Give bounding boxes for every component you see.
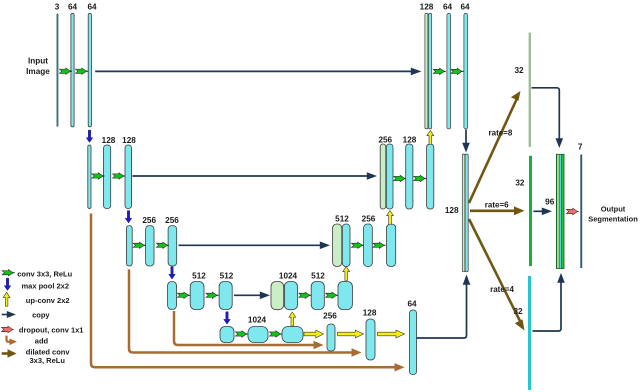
up-conv result bar <box>342 224 350 267</box>
max pool arrow 3 <box>169 267 176 279</box>
conv bar 128 <box>104 145 111 209</box>
input image bar (3) <box>57 13 59 126</box>
conv arrow <box>351 242 364 248</box>
add wire from level3 <box>129 269 352 352</box>
copy wire row2 <box>133 175 368 177</box>
legend add arrow <box>7 336 12 342</box>
legend up-conv arrow <box>3 292 10 306</box>
conv bar 256 <box>146 226 154 266</box>
svg-text:32: 32 <box>514 66 524 75</box>
up-conv result bar <box>386 144 393 209</box>
conv arrow <box>75 68 88 74</box>
copy wire row3 <box>179 244 321 246</box>
svg-text:512: 512 <box>335 215 349 224</box>
svg-text:256: 256 <box>142 216 156 225</box>
add wire from level2 <box>91 214 395 368</box>
dilated out bar 32 (rate 6) <box>529 156 532 266</box>
up-conv right arrow <box>304 330 324 338</box>
conv bar 64 <box>464 13 468 128</box>
conv arrow <box>414 175 427 181</box>
pooled bar <box>126 226 132 266</box>
dilated out bar 32 (rate 8) <box>529 33 531 147</box>
legend copy arrow <box>2 314 8 316</box>
conv arrow <box>133 242 146 248</box>
conv box <box>338 282 352 310</box>
conv bar 256 <box>168 226 177 266</box>
conv arrow <box>394 175 407 181</box>
copy elbow from bottom 32 to 96 <box>533 282 562 331</box>
conv arrow <box>92 173 105 179</box>
svg-text:Segmentation: Segmentation <box>588 215 638 224</box>
dilated out bar 32 (rate 4) <box>528 276 531 390</box>
copy wire down to dilated bar <box>465 130 467 145</box>
max pool arrow 4 <box>224 312 231 324</box>
copy wire 64 to dilated input <box>417 284 467 338</box>
conv arrow <box>373 242 386 248</box>
svg-text:128: 128 <box>122 136 136 145</box>
copy wire row1 <box>95 70 411 72</box>
svg-text:1024: 1024 <box>279 271 298 280</box>
conv bar 128 <box>125 145 132 209</box>
up-conv arrow to row3 <box>343 267 350 281</box>
svg-text:copy: copy <box>32 310 50 319</box>
conv arrow <box>59 68 72 74</box>
dilated conv rate=6 arrow <box>470 210 515 213</box>
conv box 1024 <box>248 327 268 343</box>
svg-text:256: 256 <box>362 215 376 224</box>
copy wire row4 <box>234 294 261 296</box>
conv bar 512 <box>190 282 204 310</box>
svg-text:64: 64 <box>68 3 78 12</box>
svg-text:up-conv 2x2: up-conv 2x2 <box>26 296 70 305</box>
svg-text:max pool 2x2: max pool 2x2 <box>22 282 70 291</box>
max pool arrow 2 <box>125 211 132 223</box>
svg-text:128: 128 <box>403 136 417 145</box>
svg-text:Input: Input <box>28 57 48 66</box>
svg-text:rate=8: rate=8 <box>489 129 513 138</box>
svg-text:Image: Image <box>26 67 50 76</box>
concat bar 96 (striped) <box>556 154 564 268</box>
svg-text:conv 3x3, ReLu: conv 3x3, ReLu <box>17 270 72 279</box>
svg-text:Output: Output <box>601 205 626 214</box>
svg-text:1024: 1024 <box>248 316 267 325</box>
pooled bar <box>88 145 91 209</box>
svg-text:64: 64 <box>407 300 417 309</box>
svg-text:3x3, ReLu: 3x3, ReLu <box>30 356 66 365</box>
conv arrow <box>206 292 219 298</box>
conv arrow <box>433 68 446 74</box>
svg-text:dropout, conv 1x1: dropout, conv 1x1 <box>19 325 84 334</box>
legend max pool arrow <box>4 278 11 290</box>
svg-text:512: 512 <box>192 271 206 280</box>
pooled bar <box>168 282 177 310</box>
svg-text:3: 3 <box>55 3 60 12</box>
dilated input bar 128 (concat green+cyan) <box>462 154 465 272</box>
bar 256 <box>327 324 335 351</box>
svg-text:add: add <box>35 336 49 345</box>
conv bar <box>427 144 434 209</box>
svg-text:512: 512 <box>220 271 234 280</box>
up-conv arrow to row4 <box>289 312 296 326</box>
up-conv result bar <box>428 13 431 128</box>
svg-text:rate=4: rate=4 <box>490 285 514 294</box>
conv bar 64 <box>88 13 91 126</box>
add wire from level4 <box>174 311 314 345</box>
conv arrow <box>299 292 312 298</box>
dilated conv rate=8 arrow <box>469 100 517 204</box>
conv bar 512 <box>219 282 232 310</box>
svg-text:64: 64 <box>443 3 453 12</box>
svg-text:7: 7 <box>578 143 583 152</box>
conv bar 128 <box>406 144 413 209</box>
max pool arrow 1 <box>86 130 93 142</box>
legend dropout arrow <box>2 326 14 333</box>
conv arrow <box>156 242 169 248</box>
up-conv result box <box>284 282 297 310</box>
concat green bar <box>333 224 342 267</box>
copy arrow mid 32 to 96 <box>533 210 543 212</box>
svg-text:64: 64 <box>460 3 470 12</box>
svg-text:256: 256 <box>165 216 179 225</box>
svg-text:128: 128 <box>102 136 116 145</box>
legend dilated conv arrow <box>2 352 9 355</box>
bar 128 <box>366 319 375 360</box>
conv box <box>282 327 303 343</box>
bar 64 <box>410 310 417 375</box>
svg-text:64: 64 <box>87 3 97 12</box>
output bar 7 <box>580 155 582 269</box>
up-conv right arrow <box>338 330 364 338</box>
svg-text:256: 256 <box>378 136 392 145</box>
svg-text:96: 96 <box>545 198 555 207</box>
conv arrow <box>326 292 339 298</box>
conv arrow <box>269 331 282 337</box>
conv bar <box>387 224 396 267</box>
svg-text:128: 128 <box>445 206 459 215</box>
concat green bar <box>380 144 386 209</box>
conv bar 64 <box>447 13 451 128</box>
dilated conv rate=4 arrow <box>469 219 521 322</box>
concat green box <box>271 282 284 310</box>
conv box 512 <box>311 282 324 310</box>
conv bar 64 <box>71 13 74 126</box>
up-conv arrow to row1 <box>427 131 434 145</box>
dropout conv1x1 arrow <box>566 208 578 215</box>
svg-text:128: 128 <box>363 309 377 318</box>
svg-text:32: 32 <box>515 179 525 188</box>
conv arrow <box>451 68 464 74</box>
svg-text:256: 256 <box>323 312 337 321</box>
conv arrow <box>177 292 190 298</box>
copy elbow from top 32 to 96 <box>532 88 560 139</box>
up-conv arrow to row2 <box>387 211 394 225</box>
svg-text:128: 128 <box>420 3 434 12</box>
svg-text:32: 32 <box>513 307 523 316</box>
concat green bar <box>425 13 428 128</box>
conv arrow <box>235 331 248 337</box>
conv arrow <box>113 173 126 179</box>
up-conv right arrow <box>378 330 405 338</box>
svg-text:512: 512 <box>311 271 325 280</box>
conv box <box>220 327 234 343</box>
conv bar 256 <box>364 224 373 267</box>
svg-text:rate=6: rate=6 <box>485 200 509 209</box>
legend conv arrow <box>2 270 15 276</box>
